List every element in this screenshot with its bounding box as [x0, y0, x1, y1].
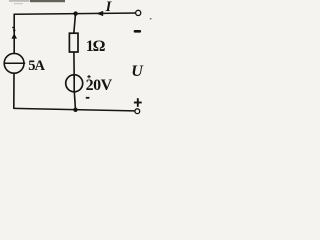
current arrow I (pointing left) on top wire: [96, 11, 103, 16]
svg-text:1Ω: 1Ω: [86, 38, 106, 55]
voltage source US circle: [66, 75, 83, 92]
wire middle vertical (junction to resistor): [74, 14, 76, 34]
resistor R 1ohm body: [69, 33, 78, 52]
ink speck near top terminal: [150, 18, 152, 19]
terminal node top right (open circle): [136, 10, 141, 15]
wire bottom horizontal: [14, 108, 135, 111]
current source horizontal bar: [4, 62, 25, 64]
minus sign of U (under top terminal): [134, 30, 141, 33]
top edge print smudge right: [30, 0, 65, 2]
svg-text:U: U: [131, 63, 144, 80]
junction node bottom: [73, 108, 77, 112]
wire left vertical upper: [13, 14, 15, 54]
wire middle vertical (source to bottom): [74, 92, 75, 110]
current direction arrow (up) on left wire: [11, 33, 17, 38]
small ink nub on left wire: [12, 27, 14, 28]
plus mark of 20V source: [87, 75, 90, 78]
wire top horizontal: [14, 13, 135, 14]
ink speck on left wire: [13, 30, 15, 32]
paper background: [0, 0, 162, 122]
minus mark of 20V source: [86, 97, 90, 99]
faint under-smudge dash: [14, 3, 23, 4]
junction node top: [73, 11, 77, 15]
wire left vertical lower: [13, 73, 15, 109]
svg-text:20V: 20V: [86, 77, 113, 94]
terminal node bottom right (open circle): [135, 109, 140, 114]
wire middle vertical (resistor to source): [73, 52, 75, 79]
voltage source vertical bar: [73, 75, 75, 92]
current source IS circle: [4, 53, 24, 73]
top edge print smudge left: [9, 0, 30, 2]
svg-text:5A: 5A: [28, 58, 45, 74]
plus sign of U (above bottom terminal): [134, 98, 142, 107]
